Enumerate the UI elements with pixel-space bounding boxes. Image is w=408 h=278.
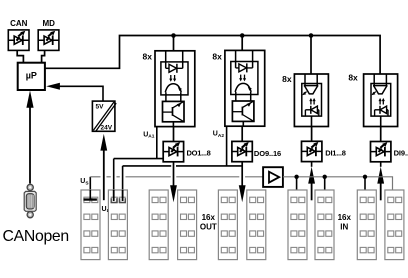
node: rail junction to input block 3 xyxy=(309,33,314,38)
wire US into B1 xyxy=(89,190,91,199)
svg-text:DI1...8: DI1...8 xyxy=(325,148,345,157)
LED DI1...8 indicator box xyxy=(302,141,322,161)
wire: DO9 LED down to OUT terminals with arrow xyxy=(239,162,246,203)
wire: converter to uP with arrow xyxy=(46,83,103,101)
wire: DO1 LED down to OUT terminals with arrow xyxy=(170,162,177,203)
svg-text:8x: 8x xyxy=(282,74,292,84)
svg-text:CANopen: CANopen xyxy=(3,228,69,245)
LED DO9..16 indicator box xyxy=(232,141,252,161)
wire: CANopen connector to uP with arrow xyxy=(26,90,33,183)
power supply: 5V/24V DC converter xyxy=(92,101,116,131)
node: junction to B9 xyxy=(363,175,367,179)
LED CAN indicator box xyxy=(8,19,29,50)
svg-text:DI9..16: DI9..16 xyxy=(394,148,408,157)
wire: drop to terminal B7 xyxy=(296,177,298,190)
svg-text:8x: 8x xyxy=(348,73,358,83)
wire: IN terminals up to DI9 LED with arrow xyxy=(377,162,384,201)
svg-text:µP: µP xyxy=(26,71,37,81)
wire: block1 to DO1 LED xyxy=(173,127,175,142)
wire: rail drop to block 2 xyxy=(241,36,243,51)
terminal block B10 xyxy=(385,190,404,260)
wire: top supply rail xyxy=(45,36,380,75)
terminal block B5 xyxy=(218,190,237,260)
node: rail junction to output block 2 xyxy=(240,33,245,38)
pin B2 UA2 stub xyxy=(120,198,126,202)
wire: MD LED to uP xyxy=(42,50,45,62)
svg-text:IN: IN xyxy=(340,222,348,231)
svg-text:DO9..16: DO9..16 xyxy=(254,149,281,158)
wire: amp output rail to IN terminals (gray) xyxy=(283,177,393,190)
terminal block B2 xyxy=(108,190,127,260)
wire UA1: terminal B2 pin1 to driver block1 and DO1 LED xyxy=(114,127,164,198)
svg-text:CAN: CAN xyxy=(10,19,28,28)
wire UL: terminal supply up to converter with arrow xyxy=(100,134,107,200)
wire: rail drop to block 3 xyxy=(310,36,312,75)
op-amp: input buffer amplifier xyxy=(263,167,283,187)
wire: drop to terminal B8 xyxy=(324,177,326,190)
wire: CAN LED to uP xyxy=(17,50,23,62)
LED DI9..16 indicator box xyxy=(371,142,391,162)
svg-text:24V: 24V xyxy=(101,125,113,132)
terminal block B7 xyxy=(288,190,307,260)
terminal block B4 xyxy=(178,190,197,260)
LED MD indicator box xyxy=(38,19,59,50)
terminal block B1 xyxy=(81,190,100,260)
LED DO1...8 indicator box xyxy=(163,142,183,162)
transistor Q-block 3: 8x input opto xyxy=(294,74,328,127)
wire UA2: terminal B2 pin2 to driver block2 and DO9 wire xyxy=(123,126,242,197)
transistor Q-block 2: 8x output opto/driver xyxy=(225,50,265,126)
microcontroller U1: uP box xyxy=(18,63,45,90)
svg-text:16x: 16x xyxy=(338,213,352,222)
wire: rail drop to block 1 xyxy=(173,36,175,51)
svg-text:MD: MD xyxy=(42,19,55,28)
transistor Q-block 1: 8x output opto/driver xyxy=(155,51,195,127)
terminal block B3 xyxy=(149,190,168,260)
svg-text:8x: 8x xyxy=(212,51,222,61)
svg-text:DO1...8: DO1...8 xyxy=(187,148,211,157)
node: junction to B8 xyxy=(323,175,327,179)
node: junction to B7 xyxy=(294,175,298,179)
pin B2 UA1 stub xyxy=(111,198,117,202)
node: rail junction to output block 1 xyxy=(171,33,176,38)
wire US: sensor supply rail from B1 to amp input (gray, with crossing gaps) xyxy=(90,177,263,200)
node: US bar in terminal B1 xyxy=(84,198,97,200)
wire: block2 to DO9 LED xyxy=(241,126,243,141)
wire: block3 to DI1 LED xyxy=(311,127,313,142)
svg-text:OUT: OUT xyxy=(200,222,217,231)
terminal block B8 xyxy=(315,190,334,260)
wire: IN terminals up to DI1 LED with arrow xyxy=(308,162,315,201)
wire: drop to terminal B9 xyxy=(364,177,366,190)
svg-text:16x: 16x xyxy=(202,213,216,222)
terminal block B6 xyxy=(247,190,266,260)
svg-text:8x: 8x xyxy=(143,51,153,61)
svg-text:5V: 5V xyxy=(96,104,105,111)
terminal block B9 xyxy=(357,190,376,260)
transistor Q-block 4: 8x input opto xyxy=(364,74,398,127)
wire: block4 to DI9 LED xyxy=(380,127,382,142)
connector X1: CANopen D-SUB xyxy=(24,184,36,218)
